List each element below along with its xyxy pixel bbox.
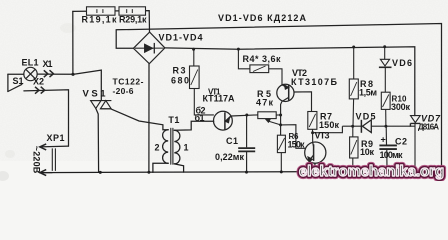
- wire VT1 emitter to R5: [231, 115, 258, 116]
- wire XP1 pin1: [40, 145, 69, 148]
- junction R4 branch on plus rail: [237, 48, 240, 51]
- wire VT2 collector node to VT3 base: [281, 125, 306, 149]
- junction VS1 cathode on bottom rail: [99, 171, 102, 174]
- resistor R9: [350, 126, 358, 171]
- wire lamp row to node A: [8, 73, 73, 75]
- wire EL1 left down to S1: [7, 74, 9, 91]
- wire node A to VS1 anode: [73, 70, 101, 100]
- resistor R4: [238, 49, 282, 85]
- transistor VT3: [305, 142, 326, 172]
- scan smudge bottom left: [5, 150, 15, 158]
- junction VD6 top on plus rail: [383, 45, 386, 48]
- junction R6 bottom on bottom rail: [280, 170, 283, 173]
- resistor R2: [119, 7, 146, 15]
- junction R8 top on plus rail: [352, 46, 355, 49]
- resistor R3: [190, 49, 214, 115]
- wire VT3 collector node to VD5 node: [313, 126, 343, 133]
- resistor R7: [308, 112, 317, 143]
- wire node A up to R1: [72, 11, 74, 74]
- diode VD6: [379, 47, 392, 92]
- connector XP1 arrow pin1: [40, 144, 46, 150]
- connector XP1 body bars: [52, 148, 55, 171]
- unijunction transistor VT1: [214, 111, 233, 130]
- zener diode VD7: [410, 116, 420, 170]
- T1 winding 2: [163, 130, 169, 164]
- junction R10 bottom / C2 top on VD5 row: [384, 125, 387, 128]
- wire VT2 base to R7: [294, 92, 312, 112]
- T1 core: [171, 128, 173, 164]
- junction R3 top on plus rail: [192, 48, 195, 51]
- junction R5 right / VT2 collector: [279, 114, 282, 117]
- watermark elektromehanika.org: [299, 163, 444, 180]
- resistor R10: [381, 92, 390, 126]
- diode VD5: [361, 120, 371, 133]
- junction C1 bottom on bottom rail: [245, 171, 248, 174]
- junction VT1 emitter / C1 top: [245, 114, 248, 117]
- connector X2 chevrons: [35, 87, 45, 94]
- wire T1 winding1 bottom to rail: [174, 164, 183, 172]
- lamp EL1: [24, 67, 37, 80]
- wire S1 to X2 to corner: [24, 90, 69, 146]
- resistor R8: [349, 47, 358, 126]
- resistor R5 trimmer: [258, 112, 281, 125]
- node A lamp/VS1/R1 junction: [71, 73, 74, 76]
- wire VT2 collector down: [281, 102, 282, 136]
- wire minus rail from bridge left to right edge: [116, 24, 441, 172]
- wire T1 winding 2 bottom to rail: [153, 163, 168, 172]
- junction R7 bottom / VT3 collector branch: [311, 131, 314, 134]
- wire bottom rail: [40, 171, 442, 173]
- wire XP1 pin2 start of bottom rail: [40, 172, 52, 174]
- wire T1 winding1 top to VT1 b1: [174, 121, 213, 130]
- wire VD5 row: [342, 125, 414, 127]
- paper grain overlay: [0, 0, 448, 161]
- junction bridge minus on bottom rail: [147, 171, 150, 174]
- junction R5 wiper / R6 top / VT3 base branch: [279, 123, 282, 126]
- connector X1 chevrons: [44, 70, 54, 77]
- svg-text:elektromehanika.org: elektromehanika.org: [299, 163, 444, 180]
- capacitor C2 electrolytic: [379, 126, 397, 170]
- triac VS1: [91, 101, 112, 109]
- wire top rail R1R2: [73, 11, 150, 32]
- bridge rectifier VD1-VD4: [133, 32, 165, 64]
- connector XP1 arrow pin2: [40, 170, 46, 176]
- wire bridge bottom to bottom rail: [148, 64, 150, 173]
- transistor VT2: [277, 84, 294, 101]
- switch S1 lever: [8, 84, 22, 91]
- capacitor C1: [238, 115, 255, 172]
- wire plus rail from bridge right: [165, 47, 415, 116]
- resistor R1: [87, 7, 116, 15]
- junction R8 R9 VD5 VT3-collector node: [351, 125, 354, 128]
- wire VS1 cathode to bottom rail: [96, 109, 99, 173]
- resistor R6: [277, 135, 285, 172]
- wire VS1 gate to T1 winding 2: [111, 109, 168, 130]
- T1 winding 1: [174, 130, 180, 164]
